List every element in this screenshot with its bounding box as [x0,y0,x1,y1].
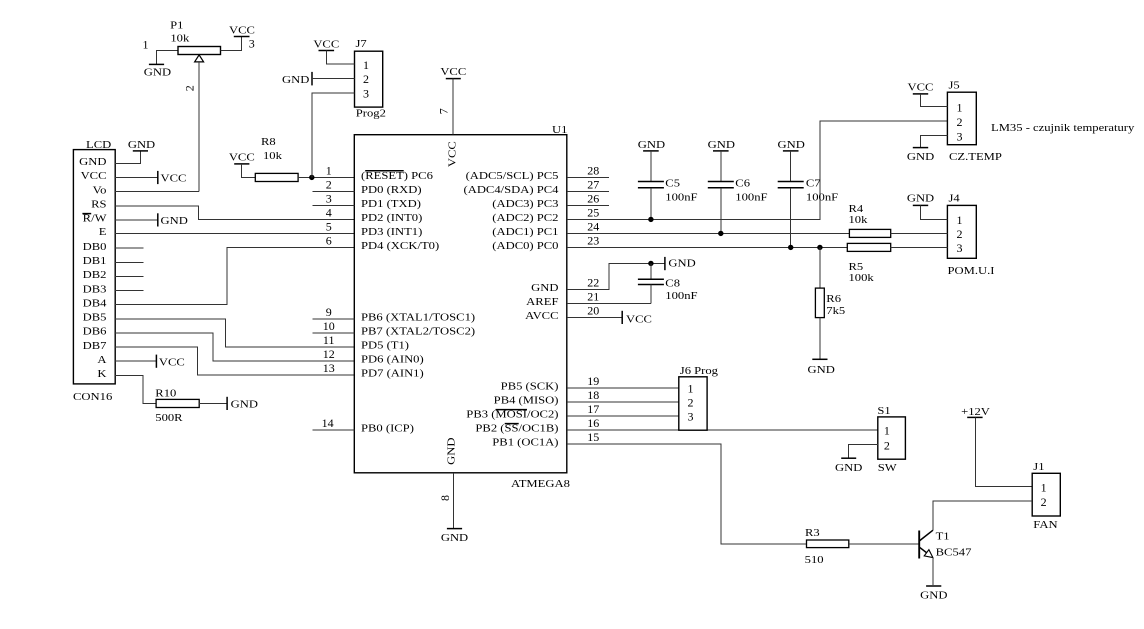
ground tap at J7 pin 2 [282,72,355,86]
svg-text:PB4 (MISO): PB4 (MISO) [494,396,559,407]
wire U1 pin 19 to J6 pin 1 [567,387,679,389]
svg-text:VCC: VCC [81,171,107,182]
wire U1 pin 21 AREF to C8 [567,302,651,304]
svg-text:1: 1 [957,213,963,227]
wire LCD DB5 to U1 PD5 [115,319,354,347]
svg-text:E: E [99,227,107,238]
wire LCD Vo to P1 wiper [115,191,199,193]
svg-text:C7: C7 [806,178,821,189]
ground at R6 [808,359,836,376]
svg-text:GND: GND [638,140,666,151]
svg-text:100nF: 100nF [665,193,698,204]
svg-text:2: 2 [688,396,694,410]
svg-text:K: K [97,369,107,380]
svg-text:23: 23 [587,234,599,248]
svg-text:1: 1 [1041,480,1047,494]
svg-text:100nF: 100nF [735,193,768,204]
wire J7 pin 3 to RESET node [312,93,355,178]
svg-text:27: 27 [587,178,599,192]
wire U1 pin 22 GND to ground tap [567,263,665,289]
svg-text:P1: P1 [170,20,183,31]
svg-text:R5: R5 [849,262,864,273]
ground at J4 pin 1 [907,194,948,220]
VCC tap at LCD pin A [115,355,185,369]
svg-text:14: 14 [322,416,334,430]
svg-text:ATMEGA8: ATMEGA8 [511,479,570,490]
junction C8 top [648,261,653,266]
svg-text:A: A [97,355,107,366]
net wire ADC0: U1 pin 23 to R5 [567,246,848,248]
svg-text:1: 1 [143,37,149,51]
P1 wiper (pin 2) to LCD Vo [183,55,204,192]
svg-text:VCC: VCC [448,141,459,167]
VCC at R8 [229,152,255,177]
svg-text:R4: R4 [849,204,864,215]
ground at C7 [778,140,806,151]
svg-text:100k: 100k [849,273,875,284]
U1 pin 28 stub [567,176,609,178]
svg-text:GND: GND [282,75,310,86]
svg-text:POM.U.I: POM.U.I [948,266,996,277]
capacitor C6 100nF [708,151,768,234]
svg-text:20: 20 [587,304,599,318]
U1 pin 27 stub [567,190,609,192]
resistor R10 500R [155,388,227,424]
transistor T1 BC547 [919,530,971,585]
U1 left pin labels [361,171,475,435]
supply +12V [961,407,1032,487]
U1 pin 9 stub [312,318,354,320]
svg-text:VCC: VCC [626,314,652,325]
U1 right pin labels [464,171,560,449]
svg-text:AVCC: AVCC [525,311,559,322]
wire U1 pin 18 to J6 pin 2 [567,401,679,403]
capacitor C8 100nF [638,263,698,303]
svg-text:GND: GND [920,590,948,601]
svg-text:PB1 (OC1A): PB1 (OC1A) [492,438,558,449]
U1 pin 10 stub [312,332,354,334]
svg-text:1: 1 [957,100,963,114]
connector J6 Prog [679,366,718,430]
svg-text:J5: J5 [949,81,960,92]
connector J1 FAN [1032,462,1060,531]
junction C5 [648,217,653,222]
svg-text:VCC: VCC [908,83,934,94]
svg-text:GND: GND [668,258,696,269]
wire LCD DB6 to U1 PD6 [115,333,354,361]
VCC tap at U1 pin 20 AVCC [567,311,652,326]
svg-text:2: 2 [363,72,369,86]
svg-text:6: 6 [326,234,332,248]
ground at J5 pin 3 [907,136,947,163]
svg-text:1: 1 [363,58,369,72]
VCC at P1 pin 3 [229,25,255,36]
svg-text:RS: RS [91,200,107,211]
svg-text:LM35 - czujnik temperatury: LM35 - czujnik temperatury [991,123,1135,134]
svg-text:VCC: VCC [159,357,185,368]
svg-text:3: 3 [957,129,963,143]
svg-text:7: 7 [437,108,451,114]
svg-text:2: 2 [884,438,890,452]
svg-text:(ADC2) PC2: (ADC2) PC2 [492,213,558,224]
svg-text:PB7 (XTAL2/TOSC2): PB7 (XTAL2/TOSC2) [361,327,475,338]
svg-text:PD4 (XCK/T0): PD4 (XCK/T0) [361,241,439,252]
svg-text:VCC: VCC [229,25,255,36]
svg-text:LCD: LCD [86,140,112,151]
svg-text:22: 22 [587,276,599,290]
svg-text:8: 8 [438,495,452,501]
svg-text:100nF: 100nF [806,193,839,204]
svg-text:VCC: VCC [229,152,255,163]
svg-text:DB6: DB6 [83,327,107,338]
wire LCD DB7 to U1 PD7 [115,347,354,375]
resistor R6 7k5 [815,247,845,359]
svg-text:3: 3 [249,37,255,51]
svg-text:(ADC5/SCL) PC5: (ADC5/SCL) PC5 [466,171,559,182]
U1 left pin numbers [322,164,335,431]
wire U1 pin 17 to J6 pin 3 [567,415,679,417]
svg-text:BC547: BC547 [936,547,972,558]
ground at T1 emitter [920,586,948,601]
junction node RESET [309,175,314,180]
ground tap at LCD pin R/W [115,213,188,227]
svg-text:J6 Prog: J6 Prog [680,366,718,377]
net wire ADC1: U1 pin 24 to R4 [567,232,850,234]
VCC at J7 pin 1 [313,40,354,65]
svg-text:VCC: VCC [161,174,187,185]
svg-text:3: 3 [363,87,369,101]
svg-text:AREF: AREF [526,297,559,308]
wire U1 pin 15 to R3 [567,444,807,544]
svg-text:2: 2 [957,115,963,129]
ground tap at R10 [227,397,259,411]
svg-text:C5: C5 [665,178,680,189]
svg-text:J4: J4 [949,194,960,205]
svg-text:PB0 (ICP): PB0 (ICP) [361,424,414,435]
svg-text:25: 25 [587,206,599,220]
svg-text:PB3 (MOSI/OC2): PB3 (MOSI/OC2) [466,410,558,421]
U1 right pin numbers [587,164,599,445]
VCC tap at LCD pin VCC [115,171,186,185]
junction R6 node [817,245,822,250]
wire LCD DB4 to U1 PD4 [115,247,354,304]
LCD connector CON16 [73,140,115,403]
svg-text:15: 15 [587,430,599,444]
capacitor C5 100nF [638,151,698,220]
svg-text:10: 10 [323,319,335,333]
svg-text:PB6 (XTAL1/TOSC1): PB6 (XTAL1/TOSC1) [361,313,475,324]
svg-text:PD2 (INT0): PD2 (INT0) [361,213,422,224]
U1 pin 26 stub [567,204,609,206]
svg-text:PD5 (T1): PD5 (T1) [361,341,409,352]
svg-text:21: 21 [587,290,599,304]
svg-text:DB3: DB3 [83,284,107,295]
ground at S1 pin 2 [835,445,878,474]
svg-text:R/W: R/W [83,214,107,225]
svg-text:R6: R6 [826,294,841,305]
svg-text:2: 2 [326,178,332,192]
ground at C5 [638,140,666,151]
svg-text:2: 2 [957,227,963,241]
svg-text:18: 18 [587,388,599,402]
svg-text:DB5: DB5 [83,313,107,324]
svg-text:DB7: DB7 [83,341,107,352]
svg-text:10k: 10k [263,151,283,162]
svg-text:(ADC0) PC0: (ADC0) PC0 [492,241,558,252]
svg-text:GND: GND [144,67,172,78]
ground at U1 pin 8 [438,473,469,544]
svg-text:PB5 (SCK): PB5 (SCK) [501,382,559,393]
svg-text:2: 2 [183,85,197,91]
switch S1 SW [877,406,905,474]
junction C6 [718,231,723,236]
svg-text:PD0 (RXD): PD0 (RXD) [361,185,422,196]
svg-text:Prog2: Prog2 [356,108,386,119]
potentiometer P1 10k [157,20,242,63]
svg-text:GND: GND [128,140,156,151]
svg-text:1: 1 [688,382,694,396]
svg-text:GND: GND [835,463,863,474]
svg-text:500R: 500R [155,413,182,424]
svg-text:3: 3 [326,192,332,206]
svg-text:10k: 10k [849,215,869,226]
IC U1 ATMEGA8 [354,125,570,490]
svg-text:16: 16 [587,416,599,430]
svg-text:DB1: DB1 [83,256,107,267]
VCC at U1 pin 7 [437,67,467,135]
wire U1 pin 16 to S1 pin 1 [567,429,878,431]
svg-text:C8: C8 [665,279,680,290]
svg-text:GND: GND [441,533,469,544]
resistor R5 100k [847,243,947,283]
resistor R8 10k [255,137,354,181]
ground at C6 [708,140,736,151]
stub LCD DB2 [115,275,143,277]
stub LCD DB3 [115,290,143,292]
svg-text:VCC: VCC [440,67,466,78]
svg-text:GND: GND [907,152,935,163]
svg-text:1: 1 [326,164,332,178]
svg-text:DB0: DB0 [83,242,107,253]
resistor R3 510 [805,528,920,566]
capacitor C7 100nF [778,151,839,248]
svg-text:(ADC3) PC3: (ADC3) PC3 [492,199,558,210]
svg-text:GND: GND [778,140,806,151]
svg-text:4: 4 [326,206,332,220]
svg-text:11: 11 [323,333,335,347]
U1 pin 3 stub [312,204,354,206]
svg-text:13: 13 [323,361,335,375]
ground at LCD pin GND [115,140,156,163]
svg-text:PB2 (SS/OC1B): PB2 (SS/OC1B) [475,424,558,435]
svg-text:U1: U1 [552,125,567,136]
svg-text:9: 9 [326,305,332,319]
svg-text:GND: GND [907,194,935,205]
stub LCD DB1 [115,261,143,263]
svg-text:3: 3 [957,241,963,255]
svg-text:28: 28 [587,164,599,178]
svg-text:(ADC4/SDA) PC4: (ADC4/SDA) PC4 [464,185,559,196]
svg-text:DB4: DB4 [83,298,107,309]
connector J4 POM.U.I [947,194,995,277]
svg-text:CZ.TEMP: CZ.TEMP [949,152,1002,163]
wire LCD E to U1 PD3 [115,233,354,235]
svg-text:+12V: +12V [961,407,990,418]
svg-text:(ADC1) PC1: (ADC1) PC1 [492,227,558,238]
U1 pin 14 stub [312,429,354,431]
svg-text:19: 19 [587,374,599,388]
svg-text:R8: R8 [261,137,276,148]
svg-text:GND: GND [708,140,736,151]
svg-text:5: 5 [326,220,332,234]
svg-text:Vo: Vo [93,185,107,196]
svg-text:12: 12 [323,347,335,361]
svg-text:GND: GND [531,283,559,294]
junction C7 [788,245,793,250]
svg-text:1: 1 [884,424,890,438]
svg-text:S1: S1 [877,406,890,417]
VCC at J5 pin 1 [908,83,948,107]
svg-text:J1: J1 [1033,462,1044,473]
svg-text:CON16: CON16 [73,392,112,403]
svg-text:7k5: 7k5 [826,306,845,317]
U1 pin 2 stub [312,190,354,192]
svg-text:R10: R10 [155,388,176,399]
svg-text:17: 17 [587,402,599,416]
svg-text:VCC: VCC [313,40,339,51]
svg-text:2: 2 [1041,495,1047,509]
svg-text:100nF: 100nF [665,291,698,302]
svg-text:SW: SW [878,463,897,474]
wire LCD RS to U1 PD2 [115,206,354,220]
stub LCD DB0 [115,247,143,249]
svg-text:FAN: FAN [1033,520,1058,531]
svg-text:10k: 10k [170,33,190,44]
svg-text:GND: GND [808,365,836,376]
connector J5 CZ.TEMP [947,81,1002,163]
svg-text:PD6 (AIN0): PD6 (AIN0) [361,355,424,366]
svg-text:DB2: DB2 [83,270,107,281]
resistor R4 10k [849,204,948,238]
svg-text:PD7 (AIN1): PD7 (AIN1) [361,369,424,380]
svg-text:3: 3 [688,410,694,424]
svg-text:GND: GND [446,437,457,465]
svg-text:J7: J7 [356,39,367,50]
svg-text:26: 26 [587,192,599,206]
svg-text:PD3 (INT1): PD3 (INT1) [361,227,422,238]
wire J1 pin 2 to T1 collector [933,501,1032,530]
svg-text:T1: T1 [936,531,950,542]
connector J7 Prog2 [355,39,386,119]
wire LCD pin K to R10 [115,375,156,403]
svg-text:C6: C6 [735,178,750,189]
ground at P1 pin 1 [144,64,172,78]
ground tap at U1 pin 22 / C8 [665,257,696,270]
svg-text:510: 510 [805,555,824,566]
svg-text:GND: GND [231,400,259,411]
svg-text:24: 24 [587,220,599,234]
net wire ADC2: U1 pin 25 to J5 pin 2 [567,121,948,219]
svg-text:PD1 (TXD): PD1 (TXD) [361,199,421,210]
svg-text:GND: GND [79,157,107,168]
svg-text:(RESET) PC6: (RESET) PC6 [361,171,433,182]
svg-text:R3: R3 [805,528,820,539]
svg-text:GND: GND [161,216,189,227]
